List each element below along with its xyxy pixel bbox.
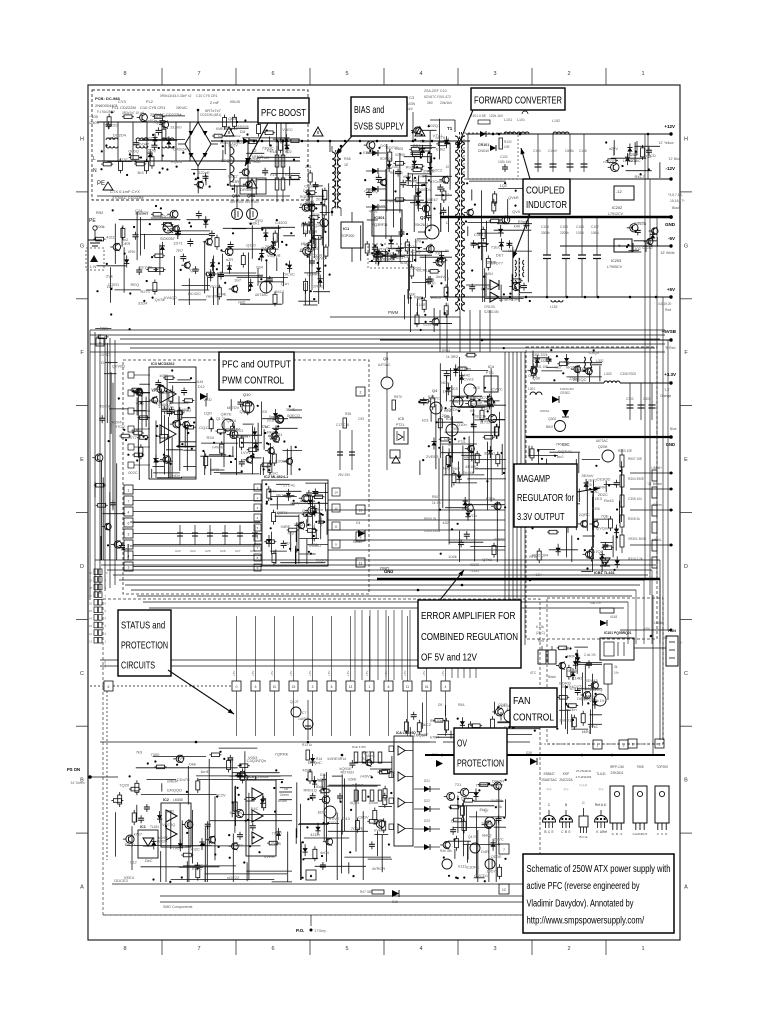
svg-text:CV2: CV2 [451, 819, 460, 824]
svg-text:1kV: 1kV [407, 107, 414, 111]
svg-text:200k: 200k [96, 224, 105, 229]
svg-text:QVQnn: QVQnn [596, 526, 609, 531]
svg-text:1.5k 1%: 1.5k 1% [452, 473, 464, 477]
svg-text:F1 9A/250V: F1 9A/250V [97, 110, 116, 114]
svg-text:k40: k40 [514, 223, 521, 228]
svg-text:Red: Red [538, 639, 544, 643]
svg-text:A6T3AC: A6T3AC [255, 293, 268, 297]
svg-text:7QRRE: 7QRRE [275, 751, 289, 756]
svg-text:active PFC (reverse engineered: active PFC (reverse engineered by [527, 881, 640, 892]
svg-text:1: 1 [641, 946, 644, 952]
svg-text:FAN: FAN [513, 696, 531, 707]
svg-text:ERROR AMPLIFIER FOR: ERROR AMPLIFIER FOR [421, 611, 515, 622]
svg-text:47n: 47n [415, 239, 422, 244]
svg-text:Dnk7: Dnk7 [462, 454, 472, 459]
svg-text:nn131: nn131 [307, 542, 319, 547]
svg-text:OUT: OUT [641, 832, 648, 836]
svg-text:10: 10 [105, 571, 109, 575]
svg-text:IC3: IC3 [248, 775, 254, 779]
svg-text:C23: C23 [175, 549, 181, 553]
svg-text:1k: 1k [446, 355, 450, 359]
svg-text:nDE22: nDE22 [227, 875, 240, 880]
svg-text:77QD: 77QD [272, 831, 283, 836]
svg-text:2N2222A: 2N2222A [559, 778, 573, 782]
svg-text:C803: C803 [392, 165, 400, 169]
svg-text:'17'Grey: '17'Grey [314, 929, 326, 933]
svg-text:ECkk: ECkk [420, 139, 430, 144]
svg-text:17Q3: 17Q3 [593, 549, 604, 554]
svg-text:R13 1k: R13 1k [302, 743, 313, 747]
svg-text:VVVE: VVVE [329, 816, 340, 821]
svg-text:C105: C105 [560, 225, 568, 229]
svg-text:D43: D43 [342, 816, 350, 821]
svg-text:COUPLED: COUPLED [526, 185, 565, 196]
svg-text:1E: 1E [344, 163, 349, 167]
svg-text:n4VRn: n4VRn [212, 444, 224, 449]
svg-text:1E3: 1E3 [595, 496, 603, 501]
svg-text:VD73Q: VD73Q [162, 822, 175, 827]
svg-text:CD222M (4B1): CD222M (4B1) [200, 113, 221, 117]
svg-text:V7742: V7742 [130, 435, 142, 440]
svg-text:70n: 70n [265, 244, 272, 249]
svg-text:2T-2N44C0: 2T-2N44C0 [576, 769, 592, 773]
svg-text:260: 260 [427, 101, 433, 105]
svg-text:C507: C507 [444, 437, 452, 441]
svg-text:P.O.: P.O. [296, 928, 304, 933]
svg-text:2R111: 2R111 [423, 168, 435, 173]
svg-text:3: 3 [493, 71, 496, 77]
svg-text:SMD Components: SMD Components [163, 905, 193, 909]
svg-text:R504: R504 [442, 349, 450, 353]
svg-text:BIAS and: BIAS and [354, 105, 385, 116]
svg-text:250VAC: 250VAC [176, 106, 188, 110]
svg-text:2SA873AC: 2SA873AC [541, 778, 557, 782]
svg-text:7Q20: 7Q20 [119, 783, 130, 788]
svg-text:7: 7 [197, 946, 200, 952]
svg-text:PWM: PWM [388, 310, 399, 315]
svg-text:C104: C104 [541, 225, 549, 229]
svg-text:DC2D4: DC2D4 [113, 133, 127, 138]
svg-text:+5V: +5V [667, 287, 675, 292]
svg-text:4V3Rn: 4V3Rn [230, 810, 242, 815]
svg-text:C14: C14 [262, 425, 268, 429]
svg-text:kn2: kn2 [557, 454, 564, 459]
svg-text:4148: 4148 [610, 615, 617, 619]
svg-text:Q1k0: Q1k0 [246, 243, 256, 248]
svg-text:C166: C166 [579, 149, 587, 153]
svg-text:0R5x13x15-0.33nF x2: 0R5x13x15-0.33nF x2 [160, 94, 192, 98]
svg-text:17: 17 [89, 594, 93, 598]
svg-text:IC203: IC203 [611, 259, 621, 263]
svg-text:16: 16 [89, 601, 93, 605]
svg-text:R507: R507 [432, 495, 440, 499]
svg-text:0D1: 0D1 [285, 541, 293, 546]
svg-text:S8040: S8040 [353, 540, 362, 544]
svg-text:+5V: +5V [251, 671, 255, 676]
svg-text:12: 12 [89, 632, 93, 636]
svg-text:5: 5 [255, 685, 257, 689]
svg-text:IC302: IC302 [470, 563, 479, 567]
svg-text:IC4: IC4 [488, 365, 494, 369]
svg-text:R3: R3 [418, 297, 423, 301]
svg-text:04RE: 04RE [281, 524, 291, 529]
svg-text:C13: C13 [276, 433, 282, 437]
svg-text:4148: 4148 [196, 380, 203, 384]
svg-text:L7912CV: L7912CV [623, 159, 638, 163]
svg-text:DkC: DkC [145, 858, 153, 863]
svg-text:http://www.smpspowersupply.com: http://www.smpspowersupply.com/ [527, 916, 645, 927]
svg-text:R91: R91 [496, 799, 502, 803]
svg-text:C28: C28 [250, 549, 256, 553]
svg-text:0VCn: 0VCn [467, 513, 477, 518]
svg-text:RQ2: RQ2 [532, 553, 541, 558]
svg-text:-45B: -45B [562, 647, 569, 651]
svg-text:2037R: 2037R [316, 197, 328, 202]
svg-text:D: D [80, 564, 84, 570]
svg-text:3k: 3k [614, 665, 618, 669]
svg-text:C104+: C104+ [548, 149, 558, 153]
svg-text:FAN: FAN [668, 628, 676, 633]
svg-text:4n04: 4n04 [320, 850, 330, 855]
svg-text:n13C: n13C [119, 157, 129, 162]
svg-text:1C: 1C [502, 888, 507, 892]
svg-text:R611: R611 [444, 409, 452, 413]
svg-text:n1Q: n1Q [427, 277, 435, 282]
svg-text:CIRCUITS: CIRCUITS [121, 661, 155, 672]
svg-text:5: 5 [345, 71, 348, 77]
svg-text:Q302: Q302 [548, 417, 556, 421]
svg-text:Brown: Brown [278, 799, 287, 803]
svg-text:Q42DQ: Q42DQ [364, 189, 378, 194]
svg-text:11: 11 [89, 639, 92, 643]
svg-text:16: 16 [425, 685, 429, 689]
svg-text:SCK057: SCK057 [160, 236, 176, 241]
svg-text:9: 9 [360, 535, 362, 539]
svg-text:A673AC: A673AC [596, 439, 609, 443]
svg-text:2.5-2N4403: 2.5-2N4403 [576, 775, 592, 779]
svg-text:CR103,: CR103, [484, 305, 496, 309]
svg-text:1k 1%: 1k 1% [432, 501, 441, 505]
svg-text:L101: L101 [517, 118, 525, 122]
svg-text:kVD: kVD [452, 426, 460, 431]
svg-text:'14' Green: '14' Green [70, 781, 85, 785]
svg-text:0V4R: 0V4R [499, 297, 509, 302]
svg-text:7nCnC: 7nCnC [283, 271, 296, 276]
svg-text:C93: C93 [358, 417, 364, 421]
svg-text:S: S [661, 832, 663, 836]
svg-text:Vn4E: Vn4E [217, 291, 227, 296]
svg-text:73212: 73212 [475, 783, 487, 788]
svg-text:L7905CV: L7905CV [607, 265, 623, 269]
svg-text:1Q772: 1Q772 [571, 684, 584, 689]
svg-text:C0Ek: C0Ek [486, 260, 496, 265]
svg-text:C27: C27 [235, 549, 241, 553]
svg-text:C26: C26 [220, 549, 226, 553]
svg-text:E3k2: E3k2 [436, 147, 446, 152]
svg-text:C306 R302: C306 R302 [620, 372, 636, 376]
svg-text:+5V: +5V [644, 627, 651, 631]
svg-text:15: 15 [89, 609, 93, 613]
svg-text:1D71: 1D71 [173, 241, 183, 246]
svg-text:REGULATOR for: REGULATOR for [517, 493, 574, 504]
svg-text:E: E [80, 457, 84, 463]
svg-text:00QCn: 00QCn [310, 507, 323, 512]
svg-text:RCk: RCk [100, 326, 108, 331]
svg-text:103N: 103N [576, 231, 584, 235]
svg-text:R28 R21: R28 R21 [230, 429, 243, 433]
svg-text:R5A: R5A [458, 703, 465, 707]
svg-text:IC1: IC1 [140, 825, 146, 829]
svg-text:27C41: 27C41 [283, 482, 296, 487]
svg-text:E: E [684, 457, 688, 463]
svg-text:L152: L152 [552, 119, 560, 123]
svg-text:nRER: nRER [167, 779, 178, 784]
svg-text:Blue: Blue [318, 779, 325, 783]
svg-text:11: 11 [406, 685, 410, 689]
svg-text:Q10: Q10 [243, 392, 251, 397]
svg-text:7Qk34: 7Qk34 [153, 120, 166, 125]
svg-text:1knE: 1knE [200, 769, 209, 774]
svg-text:20: 20 [89, 571, 93, 575]
svg-text:CC42: CC42 [642, 245, 653, 250]
svg-text:R18: R18 [270, 150, 277, 154]
svg-text:3: 3 [312, 685, 314, 689]
svg-text:4,6,19,20: 4,6,19,20 [658, 302, 672, 306]
svg-text:Blue: Blue [670, 427, 677, 431]
svg-text:R92: R92 [96, 210, 104, 215]
svg-text:1QD: 1QD [204, 411, 212, 416]
svg-text:2: 2 [360, 390, 362, 394]
svg-text:2EC1k: 2EC1k [474, 413, 486, 418]
svg-text:Q8: Q8 [383, 356, 389, 361]
svg-text:2-4.3k 1%: 2-4.3k 1% [590, 699, 605, 703]
svg-text:73D: 73D [435, 250, 442, 255]
svg-text:102k 1kV: 102k 1kV [489, 114, 504, 118]
svg-text:C3: C3 [409, 95, 415, 100]
svg-text:Q5B: Q5B [247, 193, 255, 198]
svg-text:PWM CONTROL: PWM CONTROL [222, 376, 284, 387]
svg-text:2 mF: 2 mF [210, 100, 220, 105]
svg-text:d148: d148 [400, 261, 408, 265]
svg-text:QD4: QD4 [228, 116, 237, 121]
svg-text:D23: D23 [424, 819, 430, 823]
svg-text:DD4: DD4 [413, 143, 422, 148]
svg-text:Black: Black [548, 675, 556, 679]
svg-text:6: 6 [271, 71, 274, 77]
svg-text:kk31: kk31 [566, 364, 575, 369]
svg-text:3k3: 3k3 [137, 170, 144, 175]
svg-text:1DRC: 1DRC [99, 352, 110, 357]
svg-text:DDCE3: DDCE3 [114, 878, 128, 883]
svg-text:D2V: D2V [461, 796, 469, 801]
svg-text:n3Q2D: n3Q2D [603, 159, 616, 164]
svg-text:4D2nD: 4D2nD [99, 404, 112, 409]
svg-text:2QRC: 2QRC [579, 512, 590, 517]
svg-text:QDEDV: QDEDV [417, 187, 432, 192]
svg-text:REQ: REQ [131, 282, 140, 287]
svg-text:3: 3 [310, 874, 312, 878]
svg-text:4: 4 [445, 685, 447, 689]
svg-text:QnV0D: QnV0D [112, 364, 125, 369]
svg-text:k001: k001 [160, 373, 169, 378]
svg-text:1: 1 [597, 744, 599, 748]
svg-text:6: 6 [388, 685, 390, 689]
svg-text:1: 1 [128, 488, 130, 492]
svg-text:1Q3R1: 1Q3R1 [275, 510, 288, 515]
svg-text:nC70: nC70 [436, 135, 446, 140]
svg-text:5V 1%: 5V 1% [562, 685, 572, 689]
svg-text:+5V: +5V [308, 671, 312, 676]
svg-text:kn2C: kn2C [191, 847, 200, 852]
svg-text:Q4V: Q4V [373, 818, 381, 823]
svg-text:D4: D4 [240, 129, 246, 134]
svg-text:Green: Green [280, 793, 289, 797]
svg-text:E1DR1: E1DR1 [466, 865, 480, 870]
svg-text:11: 11 [334, 525, 337, 529]
svg-text:4: 4 [128, 510, 130, 514]
svg-text:C: C [684, 671, 688, 677]
svg-text:102k 1kV: 102k 1kV [498, 160, 512, 164]
svg-text:Q2 2T: Q2 2T [290, 700, 299, 704]
svg-text:EnDn: EnDn [170, 473, 180, 478]
svg-text:15,16,17*: 15,16,17* [670, 199, 685, 203]
svg-text:+5V: +5V [422, 671, 426, 676]
svg-text:H: H [684, 136, 688, 142]
svg-text:C334: C334 [489, 842, 499, 847]
svg-text:B: B [565, 830, 567, 834]
svg-text:41Dn: 41Dn [310, 832, 320, 837]
svg-text:R23: R23 [285, 173, 292, 177]
svg-text:nkD: nkD [238, 299, 245, 304]
svg-text:8: 8 [123, 71, 126, 77]
svg-text:1.3k: 1.3k [496, 805, 502, 809]
svg-text:14: 14 [334, 491, 338, 495]
svg-text:6ZV67C RX0-472: 6ZV67C RX0-472 [424, 95, 451, 99]
svg-text:RD30: RD30 [210, 284, 221, 289]
svg-text:CkD: CkD [304, 184, 312, 189]
svg-text:TL431: TL431 [470, 569, 479, 573]
svg-text:403Q: 403Q [182, 407, 192, 412]
svg-text:R7CV: R7CV [114, 424, 125, 429]
svg-text:DE7: DE7 [496, 253, 505, 258]
svg-text:R102: R102 [504, 140, 512, 144]
svg-text:E4k: E4k [577, 368, 584, 373]
svg-text:R1E 47R5: R1E 47R5 [352, 745, 366, 749]
svg-text:DQ7VC: DQ7VC [558, 449, 572, 454]
svg-text:012: 012 [130, 859, 137, 864]
svg-text:1kEk7: 1kEk7 [427, 197, 439, 202]
svg-text:D8: D8 [284, 787, 288, 791]
svg-text:1: 1 [632, 743, 634, 747]
svg-text:IC301: IC301 [374, 215, 385, 220]
svg-text:C302: C302 [626, 397, 634, 401]
svg-text:2R72: 2R72 [294, 522, 304, 527]
svg-text:QVCD1: QVCD1 [474, 873, 489, 878]
svg-text:+3.3V: +3.3V [103, 660, 107, 668]
svg-text:43R0C: 43R0C [494, 537, 507, 542]
svg-text:PROTECTION: PROTECTION [121, 641, 168, 652]
svg-text:CY3: CY3 [118, 99, 127, 104]
svg-text:31D4: 31D4 [138, 300, 148, 305]
svg-text:Q2C: Q2C [314, 223, 322, 228]
svg-text:Q4 2Y: Q4 2Y [468, 835, 478, 839]
svg-text:S20SC4M: S20SC4M [484, 310, 499, 314]
svg-text:7905: 7905 [636, 765, 643, 769]
svg-text:2Vk: 2Vk [106, 274, 113, 279]
svg-text:D16: D16 [392, 900, 398, 904]
svg-text:Q2 2T: Q2 2T [498, 703, 507, 707]
svg-text:20k/1kV: 20k/1kV [440, 101, 453, 105]
svg-text:Dkk: Dkk [189, 761, 196, 766]
svg-text:Q1 29: Q1 29 [216, 417, 226, 421]
svg-text:TLU31: TLU31 [596, 772, 606, 776]
svg-text:Red: Red [665, 308, 671, 312]
svg-text:4E44: 4E44 [305, 199, 315, 204]
svg-text:3nC01: 3nC01 [559, 718, 572, 723]
svg-text:Q7: Q7 [484, 809, 489, 813]
svg-text:S20SA: S20SA [540, 409, 549, 413]
svg-text:Qn0Q: Qn0Q [128, 148, 139, 153]
svg-text:0R7x7x7: 0R7x7x7 [205, 108, 222, 113]
svg-text:Qk74: Qk74 [227, 418, 237, 423]
svg-text:R36: R36 [345, 412, 351, 416]
svg-text:1CD: 1CD [443, 388, 451, 393]
svg-text:4E1RC: 4E1RC [465, 464, 478, 469]
svg-text:7V0: 7V0 [172, 846, 180, 851]
svg-text:(25 C): (25 C) [536, 631, 545, 635]
svg-text:1Q2: 1Q2 [500, 183, 508, 188]
svg-text:2SK2611: 2SK2611 [611, 771, 624, 775]
svg-text:Q20H: Q20H [598, 445, 608, 449]
svg-text:TB60: TB60 [252, 160, 261, 164]
svg-text:301E1: 301E1 [484, 451, 496, 456]
svg-text:(>-): (>-) [547, 787, 552, 791]
svg-text:E31k: E31k [486, 496, 495, 501]
svg-text:7300: 7300 [151, 752, 161, 757]
svg-text:3: 3 [493, 946, 496, 952]
svg-text:74n2: 74n2 [115, 544, 125, 549]
svg-text:C10 CY5 CR1: C10 CY5 CR1 [140, 105, 166, 110]
svg-text:Q30: Q30 [533, 376, 541, 381]
svg-text:IRFP-C40: IRFP-C40 [610, 765, 624, 769]
svg-text:L1S1: L1S1 [504, 118, 512, 122]
svg-text:2200k: 2200k [560, 231, 569, 235]
svg-text:OF 5V and 12V: OF 5V and 12V [421, 653, 477, 664]
svg-text:3412: 3412 [275, 289, 285, 294]
svg-text:R34: R34 [207, 435, 215, 440]
svg-text:ICB1 TL431: ICB1 TL431 [594, 571, 615, 575]
svg-text:0: 0 [236, 685, 238, 689]
svg-text:K3P: K3P [428, 395, 435, 399]
svg-text:18: 18 [89, 586, 93, 590]
svg-text:Rk10Q: Rk10Q [276, 492, 288, 497]
svg-text:102: 102 [634, 246, 641, 251]
svg-text:C3Q3V: C3Q3V [247, 758, 260, 763]
svg-text:VnV: VnV [151, 387, 159, 392]
svg-text:2: 2 [567, 946, 570, 952]
svg-text:VR0: VR0 [212, 467, 221, 472]
svg-text:D0k7R: D0k7R [492, 778, 504, 783]
svg-text:D12: D12 [198, 385, 205, 389]
svg-text:Q4: Q4 [432, 388, 438, 393]
svg-text:TL431: TL431 [150, 825, 159, 829]
svg-text:1%: 1% [614, 671, 619, 675]
svg-text:KBL06: KBL06 [230, 100, 240, 104]
svg-text:PQ3RF11: PQ3RF11 [372, 223, 388, 227]
svg-text:R19: R19 [270, 173, 277, 177]
svg-text:GND: GND [665, 222, 676, 227]
svg-text:R47 33E: R47 33E [360, 890, 372, 894]
